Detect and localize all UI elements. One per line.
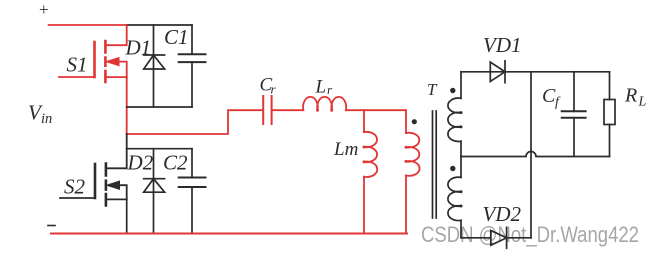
wire center tap rail with hop: [461, 152, 610, 157]
wire cell1 bottom: [127, 106, 192, 108]
wire top rail red: [49, 24, 127, 26]
transformer core: [433, 111, 437, 218]
label RL: [624, 85, 647, 110]
capacitor Cr: [263, 96, 271, 124]
wire VD2 row: [461, 237, 491, 239]
label Vin: [28, 101, 52, 128]
transformer secondary top winding: [448, 72, 461, 157]
capacitor C2: [179, 149, 206, 234]
label Cf: [542, 85, 561, 110]
svg-text:VD1: VD1: [483, 33, 522, 57]
capacitor Cf: [562, 72, 586, 157]
capacitor C1: [179, 25, 206, 107]
svg-text:C1: C1: [164, 25, 189, 49]
svg-text:D2: D2: [127, 151, 154, 175]
wire VD2 output vertical: [530, 72, 532, 238]
node - (minus label): [48, 225, 55, 227]
svg-text:CSDN @Not_Dr.Wang422: CSDN @Not_Dr.Wang422: [421, 222, 639, 247]
svg-text:Lm: Lm: [333, 139, 358, 160]
svg-text:VD2: VD2: [483, 202, 522, 226]
primary polarity dot: [412, 119, 417, 124]
diode D2 (body diode): [144, 149, 165, 234]
diode D1 (body diode): [144, 25, 165, 107]
svg-text:L: L: [638, 95, 647, 110]
resistor RL: [604, 72, 615, 157]
svg-text:+: +: [39, 0, 49, 19]
svg-text:T: T: [427, 80, 438, 99]
svg-text:C: C: [542, 85, 556, 107]
svg-text:R: R: [624, 85, 637, 107]
svg-text:S1: S1: [67, 53, 88, 77]
wire S1 source to midpoint: [126, 77, 128, 134]
transformer primary winding: [406, 110, 420, 233]
svg-text:C2: C2: [163, 151, 188, 175]
secondary bottom polarity dot: [450, 166, 455, 171]
svg-text:D1: D1: [125, 36, 152, 60]
inductor Lm: [364, 110, 377, 233]
inductor Lr: [303, 97, 346, 110]
wire cell2 top rail: [127, 148, 192, 150]
wire bottom rail red: [51, 233, 407, 235]
secondary top polarity dot: [450, 88, 455, 93]
diode VD1: [490, 61, 505, 83]
wire midpoint to Cr: [127, 110, 264, 134]
wire secondary top rail: [461, 71, 610, 73]
svg-text:in: in: [41, 111, 52, 127]
wire Cr to Lr: [272, 109, 304, 111]
label Cr: [260, 75, 277, 97]
wire Lr to primary: [346, 109, 406, 111]
label Lr: [315, 77, 334, 98]
transistor S1: [59, 25, 127, 82]
svg-text:S2: S2: [64, 175, 86, 199]
transistor S2: [60, 134, 127, 206]
wire S2 source to bottom rail: [126, 199, 128, 233]
wire top rail black: [127, 24, 192, 26]
diode VD2: [491, 227, 531, 248]
transformer secondary bottom winding: [448, 157, 461, 238]
svg-text:L: L: [315, 77, 327, 98]
